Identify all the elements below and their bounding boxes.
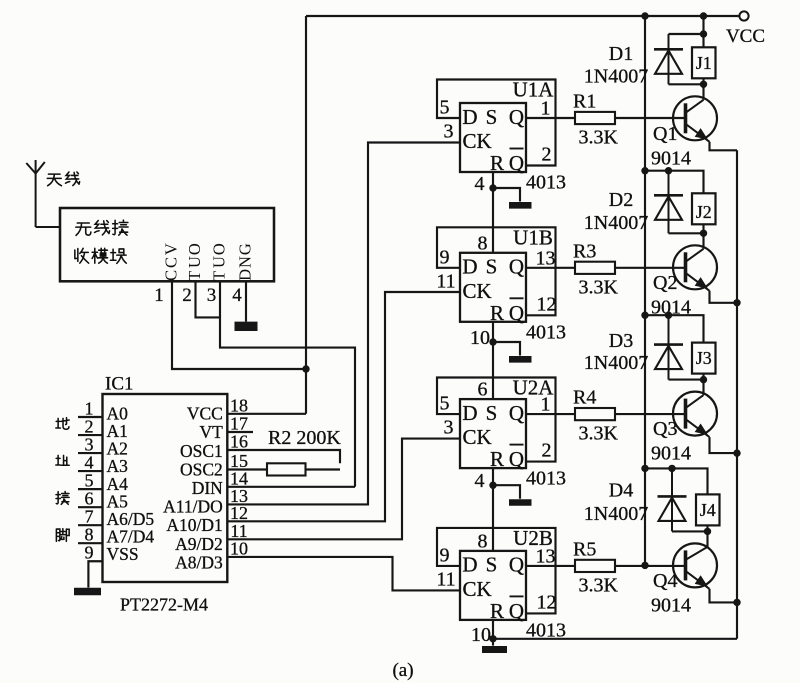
wire: D1 top link <box>669 33 704 35</box>
svg-text:1N4007: 1N4007 <box>584 66 648 88</box>
module pin number 1 <box>154 285 164 306</box>
IC1 pin label A4 <box>107 474 129 494</box>
label 9014 (Q4) <box>651 594 691 616</box>
IC1 pin label VCC <box>187 404 223 424</box>
svg-text:U: U <box>185 256 204 268</box>
module pin number 3 <box>207 285 217 306</box>
wire: flip-flop Q to R4 <box>526 413 575 415</box>
svg-text:Q: Q <box>509 151 524 175</box>
IC1 pin label OSC2 <box>180 459 223 479</box>
svg-text:18: 18 <box>230 395 248 415</box>
svg-text:D: D <box>235 269 254 281</box>
svg-text:3.3K: 3.3K <box>579 276 619 298</box>
module pin label GND (rotated) <box>235 243 254 281</box>
svg-text:4: 4 <box>475 173 485 195</box>
label 3.3K (R3) <box>579 276 619 298</box>
flip-flop U1A box <box>460 103 526 172</box>
label 9014 (Q3) <box>651 443 691 465</box>
svg-text:S: S <box>486 553 498 577</box>
U2A pin number 4 (R) <box>475 470 485 492</box>
svg-text:8: 8 <box>478 232 488 254</box>
wire: R2 right lead <box>306 468 341 470</box>
svg-text:U1B: U1B <box>513 225 553 249</box>
svg-text:9: 9 <box>440 544 450 566</box>
svg-text:2: 2 <box>85 417 94 437</box>
U1A internal labels R and Q-bar <box>490 149 524 176</box>
wire: module pin 1 (VCC) to riser <box>172 281 306 369</box>
svg-text:10: 10 <box>470 327 490 349</box>
svg-text:2: 2 <box>542 144 552 166</box>
wire: J1 bottom to Q1 collector <box>702 78 704 100</box>
svg-text:3: 3 <box>85 435 94 455</box>
receiver module box <box>60 208 274 281</box>
svg-text:CK: CK <box>463 425 492 449</box>
flip-flop U2A box <box>460 399 526 468</box>
svg-text:4: 4 <box>232 285 242 306</box>
flip-flop U2B box <box>460 551 526 620</box>
node: D4/J4 bottom to collector <box>704 528 711 535</box>
svg-text:Q4: Q4 <box>653 570 677 592</box>
wire: riser from top rail to IC1 pin 18 <box>305 16 307 414</box>
ground: bottom (U2B R) <box>482 639 507 650</box>
svg-text:VSS: VSS <box>107 544 139 564</box>
U2A pin number 1 (Q) <box>541 394 551 416</box>
resistor R5 <box>575 560 615 572</box>
svg-text:CK: CK <box>463 577 492 601</box>
wire: IC1 pin 18 to riser <box>227 413 306 415</box>
svg-text:1N4007: 1N4007 <box>584 212 648 234</box>
svg-text:PT2272-M4: PT2272-M4 <box>120 595 208 615</box>
U2B pin number 12 (Q-bar) <box>537 591 557 613</box>
svg-text:S: S <box>486 105 498 129</box>
svg-text:D1: D1 <box>609 43 633 65</box>
IC1 pin label A5 <box>107 491 129 511</box>
U2B pin number 8 (S) <box>478 530 488 552</box>
flip-flop U1B box <box>460 253 526 322</box>
svg-text:12: 12 <box>230 503 248 523</box>
svg-text:D: D <box>462 553 477 577</box>
svg-text:7: 7 <box>85 507 94 527</box>
wire: bottom return line to emitter rail <box>493 638 737 640</box>
U1B pin number 10 (R) <box>470 327 490 349</box>
node: branch rail / D3 branch <box>641 312 648 319</box>
diode D4 (1N4007) <box>658 468 687 531</box>
wire: U2B R(10) down to bottom node <box>492 620 494 639</box>
resistor R2 <box>267 463 306 475</box>
U2A pin number 5 (D) <box>440 393 450 415</box>
svg-text:Q1: Q1 <box>653 123 677 145</box>
label 3.3K (R1) <box>579 127 619 149</box>
svg-text:8: 8 <box>478 530 488 552</box>
svg-text:3.3K: 3.3K <box>579 423 619 445</box>
svg-text:C: C <box>161 257 180 268</box>
wire: D3/J3 bottom link <box>669 379 704 381</box>
wire: U1A feedback loop Q-bar to D <box>437 80 556 166</box>
wire: IC1 pin 16 (OSC1) to R2 right <box>227 450 340 463</box>
svg-text:D: D <box>462 105 477 129</box>
IC1 pin label DIN <box>192 478 223 498</box>
U1B pin number 12 (Q-bar) <box>537 293 557 315</box>
svg-text:4013: 4013 <box>526 321 566 343</box>
wire: Q4 emitter to emitter rail <box>710 589 738 603</box>
wire: U1B R(10) down to chain node <box>492 322 494 342</box>
label Q3 <box>653 418 677 440</box>
wire: D4/J4 bottom link <box>672 530 708 532</box>
label Q1 <box>653 123 677 145</box>
svg-text:4013: 4013 <box>526 468 566 490</box>
svg-text:R2 200K: R2 200K <box>268 427 341 449</box>
diode D2 (1N4007) <box>654 171 683 234</box>
node: Q4 emitter / rail <box>733 599 740 606</box>
label VCC (supply) <box>726 26 765 47</box>
U2A pin number 6 (S) <box>478 379 488 401</box>
wire: flip-flop Q to R3 <box>526 267 575 269</box>
wire: top rail down to J1 <box>702 16 704 47</box>
IC1 pin number 14 <box>230 468 248 488</box>
U2B pin number 13 (Q) <box>536 545 556 567</box>
label shou-mo-kuai (module) text line 2 <box>75 248 126 263</box>
relay J1 box <box>692 47 716 78</box>
svg-text:4013: 4013 <box>526 172 566 194</box>
svg-text:D4: D4 <box>609 480 633 502</box>
node: branch rail / D4 branch <box>641 465 648 472</box>
svg-text:D: D <box>462 255 477 279</box>
IC1 pin 7 stub (A6/D5) <box>78 524 103 526</box>
svg-text:Q: Q <box>509 447 524 471</box>
svg-text:O: O <box>209 243 228 255</box>
label Q4 <box>653 570 677 592</box>
label R5 <box>573 538 596 560</box>
wire: Q3 emitter to emitter rail <box>710 437 738 453</box>
wire: chain node down to U1B S(8) <box>492 188 494 253</box>
U1A pin number 1 (Q) <box>541 98 551 120</box>
IC1 pin 3 stub (A2) <box>78 452 103 454</box>
wire: IC1 pin 11 (A9/D2) to U2A CK <box>227 439 460 540</box>
wire: D2/J2 bottom link <box>669 232 704 234</box>
module pin label VCC (rotated) <box>161 243 180 281</box>
label 1N4007 (D2) <box>584 212 648 234</box>
U1A internal labels D S Q <box>462 105 524 129</box>
svg-text:5: 5 <box>85 471 94 491</box>
svg-text:13: 13 <box>536 545 556 567</box>
node: U2B R / ground / return line <box>489 635 496 642</box>
svg-text:10: 10 <box>471 624 491 646</box>
U2B internal labels D S Q <box>462 553 524 577</box>
svg-text:Q: Q <box>509 599 524 623</box>
U2B internal label CK <box>463 577 492 601</box>
IC1 pin number 6 <box>85 489 94 509</box>
svg-text:VCC: VCC <box>187 404 223 424</box>
svg-text:D3: D3 <box>609 330 633 352</box>
U1B pin number 9 (D) <box>440 246 450 268</box>
svg-text:1: 1 <box>154 285 164 306</box>
transistor Q3 (9014) <box>673 392 717 438</box>
IC1 pin number 16 <box>230 432 248 452</box>
svg-text:1N4007: 1N4007 <box>584 352 648 374</box>
node: Q2 emitter / rail <box>733 299 740 306</box>
wire: flip-flop Q to R5 <box>526 565 575 567</box>
svg-text:9014: 9014 <box>651 443 691 465</box>
svg-text:J4: J4 <box>700 500 716 520</box>
svg-text:T: T <box>185 271 204 281</box>
svg-text:J1: J1 <box>696 53 712 73</box>
IC1 pin number 5 <box>85 471 94 491</box>
label D2 <box>609 189 633 211</box>
node: U2A R / ground <box>489 482 496 489</box>
svg-text:3: 3 <box>444 121 454 143</box>
wire: antenna to receiver module <box>36 226 60 228</box>
svg-text:A11/DO: A11/DO <box>163 497 223 517</box>
wire: Q1 emitter to emitter rail <box>710 142 738 151</box>
wire: flip-flop Q to R1 <box>526 117 575 119</box>
wire: IC1 pin 13 (A11/DO) to U1A CK <box>227 143 460 505</box>
label U1B <box>513 225 553 249</box>
wire: U2A R(4) down to chain node <box>492 468 494 485</box>
svg-text:5: 5 <box>440 97 450 119</box>
module pin number 2 <box>182 285 192 306</box>
svg-text:VT: VT <box>199 422 223 442</box>
label 3.3K (R4) <box>579 423 619 445</box>
wire: R1 to Q1 base <box>615 117 686 119</box>
IC1 pin number 13 <box>230 486 248 506</box>
U1B internal labels D S Q <box>462 255 524 279</box>
wire: J2 bottom to Q2 collector <box>702 224 704 249</box>
wire: IC1 pin 17 stub (VT) <box>227 431 253 433</box>
svg-text:17: 17 <box>230 414 248 434</box>
wire: U1A R(4) down to chain node <box>492 172 494 188</box>
U1A pin number 3 (CK) <box>444 121 454 143</box>
node: branch rail / D2 branch <box>641 167 648 174</box>
IC1 pin number 17 <box>230 414 248 434</box>
U2A internal label CK <box>463 425 492 449</box>
label D3 <box>609 330 633 352</box>
svg-text:12: 12 <box>537 293 557 315</box>
label PT2272-M4 <box>120 595 208 615</box>
svg-text:3: 3 <box>207 285 217 306</box>
label U2A <box>513 376 555 400</box>
IC1 pin number 8 <box>85 525 94 545</box>
IC1 pin number 15 <box>230 451 248 471</box>
U1A internal label CK <box>463 129 492 153</box>
IC1 pin number 18 <box>230 395 248 415</box>
svg-text:O: O <box>185 243 204 255</box>
ground: IC1 VSS <box>74 588 101 595</box>
svg-text:10: 10 <box>230 538 248 558</box>
svg-text:3.3K: 3.3K <box>579 127 619 149</box>
svg-text:9014: 9014 <box>651 147 691 169</box>
svg-text:3: 3 <box>444 417 454 439</box>
IC1 pin label A9/D2 <box>175 534 223 554</box>
svg-text:8: 8 <box>85 525 94 545</box>
svg-text:CK: CK <box>463 129 492 153</box>
wire: IC1 pin 10 (A8/D3) to U2B CK <box>227 557 460 591</box>
IC1 pin 8 stub (A7/D4) <box>78 542 103 544</box>
U1A pin number 4 (R) <box>475 173 485 195</box>
label wu-xian-jie (wireless receive) text line 1 <box>76 220 128 235</box>
IC1 pin label OSC1 <box>180 441 223 461</box>
svg-text:11: 11 <box>436 568 455 590</box>
svg-text:R1: R1 <box>573 91 596 113</box>
IC1 pin 1 stub (A0) <box>78 416 103 418</box>
label R1 <box>573 91 596 113</box>
svg-text:T: T <box>209 271 228 281</box>
U2B pin number 9 (D) <box>440 544 450 566</box>
wire: R5 to Q4 base <box>615 565 686 567</box>
wire: U1B feedback loop Q-bar to D <box>437 227 556 315</box>
IC1 pin 2 stub (A1) <box>78 434 103 436</box>
svg-text:Q: Q <box>509 301 524 325</box>
relay J4 box <box>696 494 720 525</box>
U1B pin number 13 (Q) <box>536 247 556 269</box>
svg-text:DIN: DIN <box>192 478 223 498</box>
ground: set/reset chain <box>493 188 532 205</box>
ground: set/reset chain <box>493 342 532 359</box>
label R3 <box>573 240 596 262</box>
label 3.3K (R5) <box>579 574 619 596</box>
ground: module pin 4 <box>235 322 258 331</box>
svg-text:Q2: Q2 <box>653 272 677 294</box>
antenna <box>26 160 45 227</box>
U2B pin number 11 (CK) <box>436 568 455 590</box>
node: D4 top join <box>668 465 675 472</box>
IC1 pin number 10 <box>230 538 248 558</box>
wire: D1/J1 bottom link <box>669 83 704 85</box>
wire: power branch rail (vertical) <box>644 16 646 566</box>
wire: J3 bottom to Q3 collector <box>702 374 704 396</box>
label tian-xian (antenna) text <box>47 172 79 186</box>
wire: R3 to Q2 base <box>615 267 686 269</box>
wire: module pin 4 stub <box>245 281 247 321</box>
U2B pin number 10 (R) <box>471 624 491 646</box>
wire: chain node down to U2A S(6) <box>492 342 494 399</box>
svg-text:D: D <box>462 401 477 425</box>
IC1 pin 4 stub (A3) <box>78 470 103 472</box>
diode D1 (1N4007) <box>654 34 683 84</box>
node: D3 top join <box>665 312 672 319</box>
IC1 pin label A7/D4 <box>107 527 155 547</box>
svg-text:N: N <box>235 256 254 268</box>
svg-text:4: 4 <box>475 470 485 492</box>
svg-text:V: V <box>161 243 180 255</box>
label 1N4007 (D4) <box>584 503 648 525</box>
label 9014 (Q2) <box>651 296 691 318</box>
svg-text:9: 9 <box>440 246 450 268</box>
wire: branch rail to D4/J4 top <box>645 468 708 494</box>
svg-text:1: 1 <box>541 394 551 416</box>
svg-text:U: U <box>209 256 228 268</box>
label R2 200K <box>268 427 341 449</box>
IC1 pin label VT <box>199 422 223 442</box>
svg-text:(a): (a) <box>392 660 413 681</box>
transistor Q2 (9014) <box>673 245 717 291</box>
label di-zhi-jie-jiao (address pins) vertical text <box>56 418 69 542</box>
svg-text:R3: R3 <box>573 240 596 262</box>
svg-text:11: 11 <box>436 270 455 292</box>
svg-text:Q: Q <box>509 105 524 129</box>
svg-text:2: 2 <box>542 440 552 462</box>
module pin label OUT (pin3, rotated) <box>209 243 228 281</box>
label 4013 (U1A) <box>526 172 566 194</box>
wire: R4 to Q3 base <box>615 413 686 415</box>
node: D1/J1 bottom to collector <box>700 81 707 88</box>
relay J3 box <box>692 343 716 374</box>
svg-text:R: R <box>490 301 504 325</box>
svg-text:13: 13 <box>536 247 556 269</box>
IC1 pin number 12 <box>230 503 248 523</box>
U1A pin number 5 (D) <box>440 97 450 119</box>
node: D3/J3 bottom to collector <box>700 376 707 383</box>
svg-text:VCC: VCC <box>726 26 765 47</box>
U1B internal labels R and Q-bar <box>490 298 524 325</box>
node: receiver VCC joins pin-18 riser <box>302 365 309 372</box>
IC1 pin number 9 <box>85 543 94 563</box>
node: D1 top join <box>700 30 707 37</box>
label Q2 <box>653 272 677 294</box>
label J4 <box>700 500 716 520</box>
wire: IC1 pin 15 (OSC2) to R2 left <box>227 468 267 470</box>
wire: chain node down to U2B S(8) <box>492 485 494 551</box>
svg-text:Q: Q <box>509 401 524 425</box>
node: U1A R / ground <box>489 184 496 191</box>
label J3 <box>696 348 712 368</box>
svg-text:CK: CK <box>463 279 492 303</box>
svg-text:4: 4 <box>85 453 94 473</box>
svg-text:9: 9 <box>85 543 94 563</box>
svg-text:Q: Q <box>509 255 524 279</box>
wire: Q2 emitter to emitter rail <box>710 291 738 303</box>
svg-text:S: S <box>486 401 498 425</box>
IC1 pin number 1 <box>85 399 94 419</box>
svg-text:5: 5 <box>440 393 450 415</box>
resistor R3 <box>575 262 615 274</box>
svg-text:Q: Q <box>509 553 524 577</box>
label 4013 (U2B) <box>526 619 566 641</box>
IC1 pin label VSS <box>107 544 139 564</box>
svg-text:J2: J2 <box>696 202 712 222</box>
wire: emitter rail (vertical) <box>736 150 738 639</box>
wire: IC1 pin 12 (A10/D1) to U1B CK <box>227 292 460 521</box>
svg-text:A8/D3: A8/D3 <box>175 552 223 572</box>
IC1 pin label A1 <box>107 421 128 441</box>
U1B internal label CK <box>463 279 492 303</box>
diode D3 (1N4007) <box>654 315 683 379</box>
U1A pin number 2 (Q-bar) <box>542 144 552 166</box>
svg-text:IC1: IC1 <box>105 374 134 395</box>
label 1N4007 (D1) <box>584 66 648 88</box>
wire: module pin 3 (OUT) to IC1 DIN <box>220 281 355 487</box>
IC1 pin 6 stub (A5) <box>78 506 103 508</box>
wire: IC1 pin 14 stub (DIN) <box>227 486 355 488</box>
IC1 pin label A8/D3 <box>175 552 223 572</box>
svg-text:G: G <box>235 243 254 255</box>
label R4 <box>573 387 596 409</box>
svg-text:1: 1 <box>85 399 94 419</box>
svg-text:A10/D1: A10/D1 <box>166 515 222 535</box>
wire: VCC top rail <box>306 15 740 17</box>
svg-text:D2: D2 <box>609 189 633 211</box>
transistor Q1 (9014) <box>673 96 717 142</box>
svg-text:1: 1 <box>541 98 551 120</box>
node: D2/J2 bottom to collector <box>700 230 707 237</box>
IC1 pin number 7 <box>85 507 94 527</box>
node: Q3 emitter / rail <box>733 449 740 456</box>
VCC terminal <box>739 11 748 20</box>
IC1 pin label A2 <box>107 439 128 459</box>
label J1 <box>696 53 712 73</box>
IC1 pin label A3 <box>107 456 129 476</box>
svg-text:R4: R4 <box>573 387 596 409</box>
svg-text:6: 6 <box>85 489 94 509</box>
